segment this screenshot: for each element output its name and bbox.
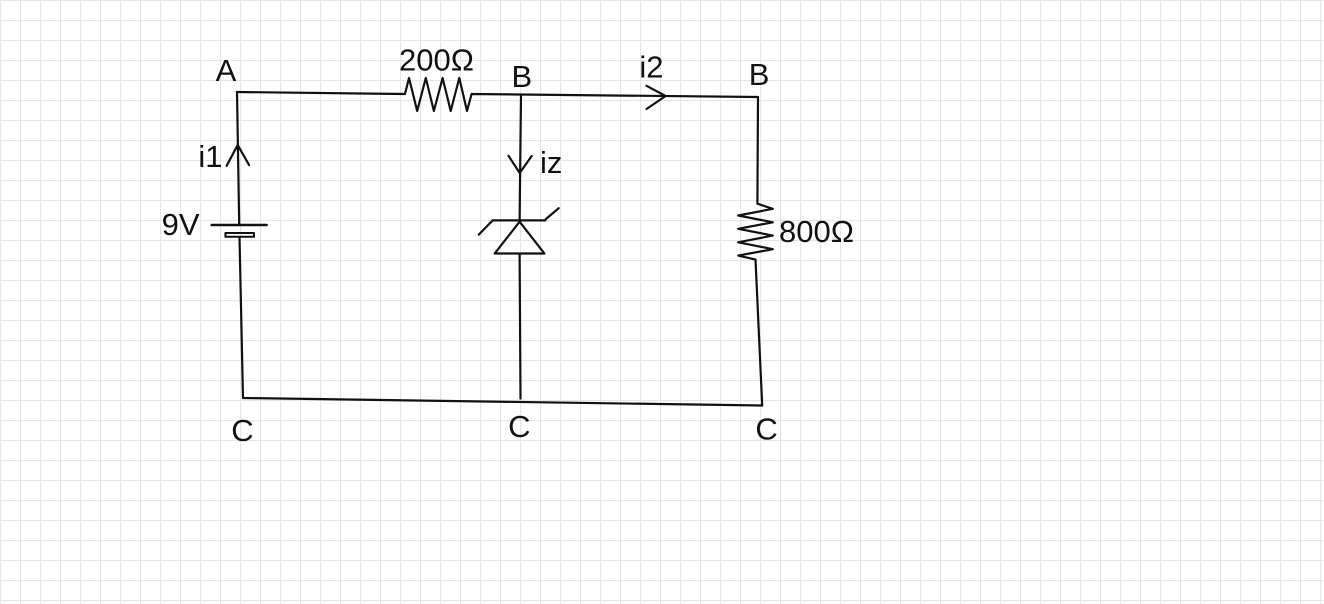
svg-text:C: C <box>508 409 530 444</box>
svg-text:C: C <box>755 412 777 447</box>
svg-text:B: B <box>749 57 770 92</box>
svg-text:200Ω: 200Ω <box>399 43 474 78</box>
svg-text:iz: iz <box>540 145 562 180</box>
svg-text:B: B <box>512 59 533 94</box>
svg-text:i1: i1 <box>198 139 222 174</box>
svg-text:C: C <box>231 413 253 448</box>
svg-text:i2: i2 <box>639 49 663 84</box>
svg-text:800Ω: 800Ω <box>779 214 854 249</box>
svg-text:A: A <box>216 53 237 88</box>
svg-text:9V: 9V <box>162 207 200 242</box>
